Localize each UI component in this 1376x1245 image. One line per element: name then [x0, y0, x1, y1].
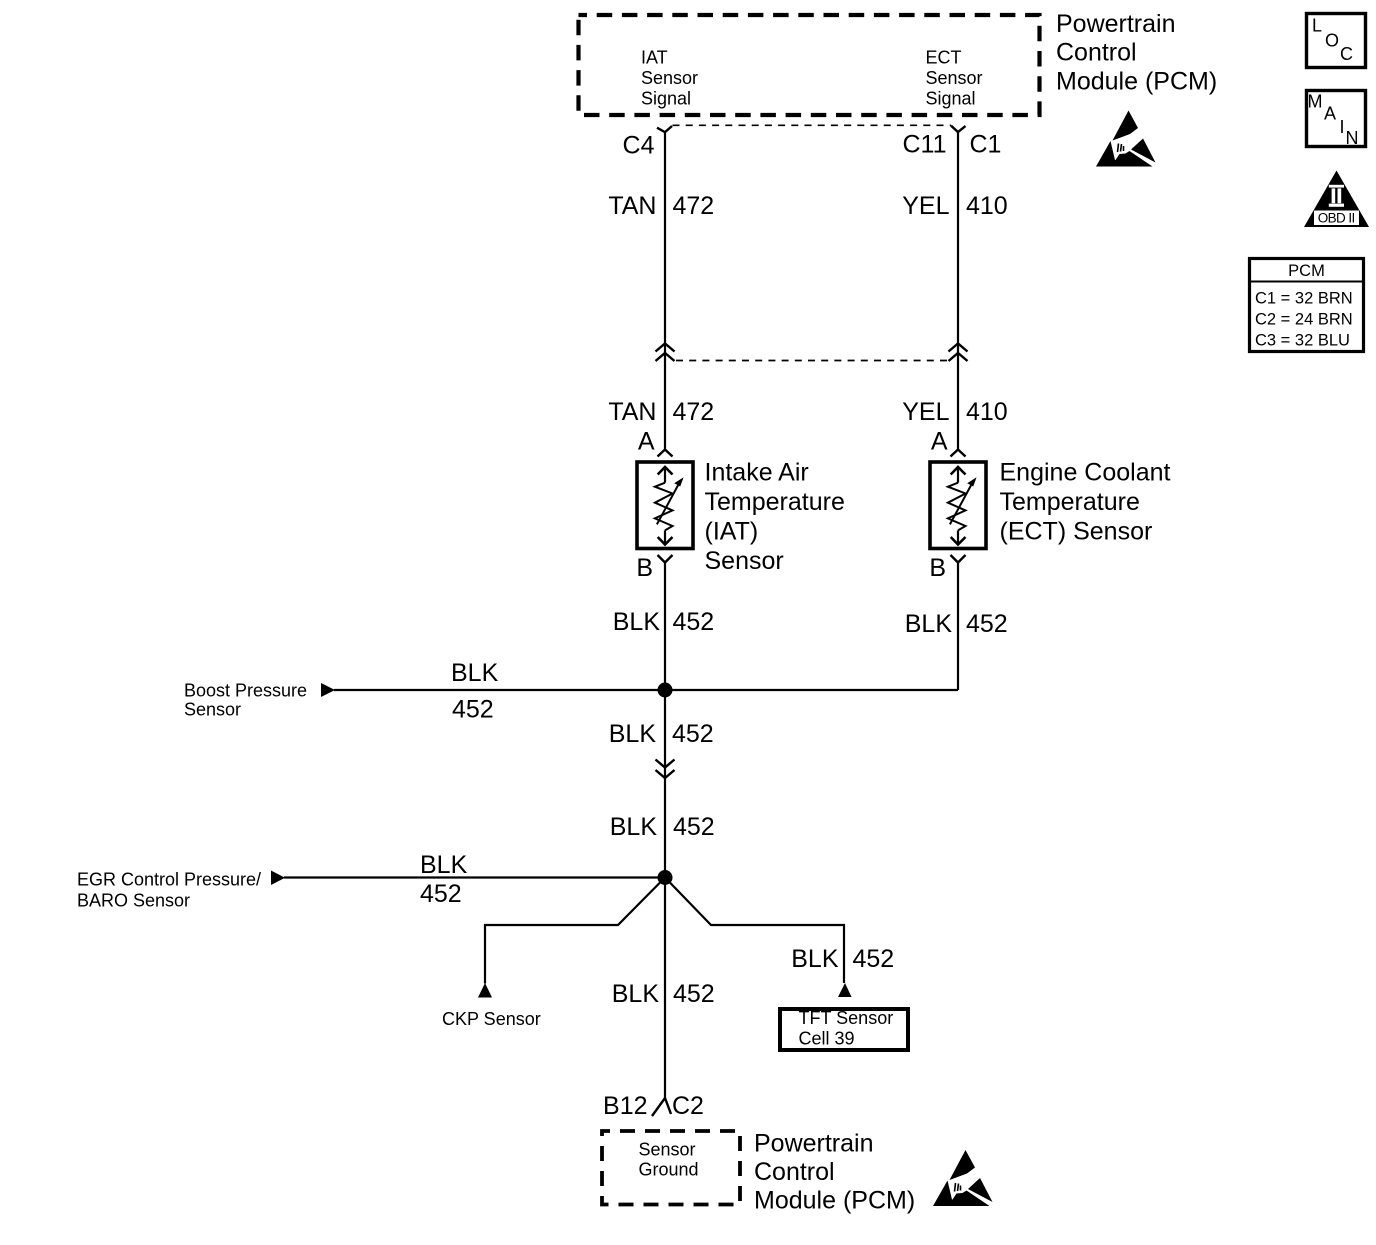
svg-text:Temperature: Temperature [1000, 488, 1140, 516]
label BLK 452 (boost branch) [451, 659, 499, 724]
label YEL 410 upper [902, 192, 1007, 220]
junction node S101 [658, 683, 673, 698]
svg-text:472: 472 [673, 398, 715, 426]
TFT branch arrow [838, 983, 852, 997]
svg-text:BLK: BLK [612, 980, 660, 1008]
svg-text:O: O [1325, 31, 1339, 51]
wire BLK 452 from ECT pin B [957, 563, 959, 691]
wire to TFT sensor (right branch) [665, 878, 844, 984]
svg-text:Cell 39: Cell 39 [799, 1029, 855, 1049]
label BLK 452 (ECT ground wire) [905, 610, 1008, 638]
pin B connector (IAT) [658, 555, 673, 563]
IAT sensor box U1 [637, 462, 693, 549]
wire BLK 452 horizontal (EGR branch) [284, 876, 665, 878]
svg-text:CKP Sensor: CKP Sensor [442, 1009, 541, 1029]
connector C11 / C1 at PCM [902, 126, 1001, 159]
svg-text:YEL: YEL [902, 398, 949, 426]
svg-text:452: 452 [672, 720, 714, 748]
svg-text:(IAT): (IAT) [705, 517, 759, 545]
svg-text:BLK: BLK [613, 608, 661, 636]
svg-text:BLK: BLK [420, 851, 468, 879]
wire BLK 452 from IAT pin B [664, 563, 666, 691]
svg-text:A: A [931, 428, 948, 456]
EGR Control Pressure / BARO Sensor label [77, 870, 261, 911]
label BLK 452 (IAT ground wire) [613, 608, 714, 636]
svg-text:452: 452 [966, 610, 1008, 638]
svg-text:452: 452 [673, 608, 715, 636]
svg-text:I: I [1340, 117, 1345, 137]
Boost Pressure Sensor label [184, 681, 307, 720]
MAIN box [1307, 91, 1366, 149]
svg-text:452: 452 [452, 696, 494, 724]
svg-text:A: A [1324, 104, 1336, 124]
pin A connector (ECT) [951, 450, 966, 457]
svg-text:ECT: ECT [926, 48, 962, 68]
svg-text:Intake Air: Intake Air [705, 459, 809, 487]
ECT sensor name label [1000, 459, 1171, 546]
svg-text:Sensor: Sensor [641, 68, 698, 88]
connector C2 label [672, 1092, 704, 1120]
wire BLK 452 (junction to break) [664, 690, 666, 878]
IAT Sensor Signal label [641, 48, 698, 109]
svg-text:N: N [1346, 128, 1359, 148]
svg-text:YEL: YEL [902, 192, 949, 220]
connector B12/C2 symbol [652, 1098, 671, 1116]
CKP Sensor label [442, 1009, 541, 1029]
IAT thermistor symbol [655, 467, 684, 545]
svg-text:452: 452 [673, 813, 715, 841]
svg-text:Control: Control [754, 1158, 835, 1186]
svg-text:Sensor: Sensor [926, 68, 983, 88]
label TAN 472 upper [608, 192, 714, 220]
svg-text:BLK: BLK [609, 720, 657, 748]
svg-text:A: A [638, 428, 655, 456]
svg-text:C2: C2 [672, 1092, 704, 1120]
ECT Sensor Signal label [926, 48, 983, 109]
Boost Pressure Sensor arrow [321, 683, 335, 697]
label BLK 452 (above lower junction) [610, 813, 715, 841]
dashed connector line (top) [673, 124, 952, 126]
TFT Sensor Cell 39 box [780, 1008, 908, 1050]
svg-text:C: C [1340, 44, 1353, 64]
svg-text:C4: C4 [623, 132, 655, 160]
pin B connector (ECT) [951, 555, 966, 563]
label YEL 410 lower [902, 398, 1007, 426]
pin B label (IAT) [636, 554, 653, 582]
label BLK 452 (EGR branch) [420, 851, 468, 908]
ESD warning symbol (top) [1096, 111, 1156, 167]
svg-text:C3 = 32 BLU: C3 = 32 BLU [1255, 332, 1350, 350]
label BLK 452 (TFT branch) [791, 945, 894, 973]
svg-text:Module (PCM): Module (PCM) [754, 1187, 915, 1215]
svg-text:452: 452 [420, 880, 462, 908]
svg-text:Powertrain: Powertrain [1056, 10, 1176, 38]
ECT thermistor symbol [948, 467, 977, 545]
PCM module dashed box (top) [579, 15, 1040, 115]
svg-text:L: L [1312, 16, 1322, 36]
harness break (right wire) [949, 344, 968, 362]
svg-text:Sensor: Sensor [184, 700, 241, 720]
svg-text:410: 410 [966, 398, 1008, 426]
svg-text:M: M [1308, 92, 1323, 112]
svg-text:Signal: Signal [926, 89, 976, 109]
LOC box [1307, 14, 1366, 68]
svg-text:PCM: PCM [1288, 262, 1325, 280]
svg-text:BLK: BLK [905, 610, 953, 638]
svg-text:EGR Control Pressure/: EGR Control Pressure/ [77, 870, 261, 890]
svg-text:B12: B12 [603, 1092, 647, 1120]
wire TAN 472 upper (IAT signal) [664, 132, 666, 449]
svg-text:Signal: Signal [641, 89, 691, 109]
svg-text:Boost Pressure: Boost Pressure [184, 681, 307, 701]
harness break (left wire) [656, 344, 675, 362]
svg-text:B: B [929, 554, 946, 582]
pin A label (IAT) [638, 428, 655, 456]
PCM connector legend table [1248, 259, 1365, 352]
svg-text:Control: Control [1056, 39, 1137, 67]
svg-text:Engine Coolant: Engine Coolant [1000, 459, 1171, 487]
svg-text:(ECT) Sensor: (ECT) Sensor [1000, 517, 1153, 545]
svg-text:C2 = 24 BRN: C2 = 24 BRN [1255, 311, 1353, 329]
wire YEL 410 upper (ECT signal) [957, 132, 959, 450]
svg-text:Module (PCM): Module (PCM) [1056, 68, 1217, 96]
connector C4 at PCM [623, 126, 672, 160]
svg-text:Sensor: Sensor [705, 547, 784, 575]
svg-text:BLK: BLK [451, 659, 499, 687]
svg-text:Sensor: Sensor [639, 1140, 696, 1160]
pin B12 label [603, 1092, 647, 1120]
svg-text:Ground: Ground [639, 1160, 699, 1180]
svg-text:472: 472 [673, 192, 715, 220]
ECT sensor box U2 [930, 462, 986, 549]
dashed break line (middle) [676, 360, 948, 362]
svg-text:OBD II: OBD II [1318, 211, 1356, 226]
pin B label (ECT) [929, 554, 946, 582]
IAT sensor name label [705, 459, 845, 575]
svg-text:452: 452 [853, 945, 895, 973]
svg-text:TAN: TAN [608, 192, 656, 220]
CKP branch arrow [478, 983, 492, 998]
svg-text:410: 410 [966, 192, 1008, 220]
wire BLK 452 horizontal (boost branch) [334, 689, 958, 691]
svg-text:BLK: BLK [791, 945, 839, 973]
svg-text:452: 452 [673, 980, 715, 1008]
harness break (center wire) [656, 760, 675, 779]
svg-text:C1: C1 [970, 131, 1002, 159]
svg-text:Powertrain: Powertrain [754, 1130, 874, 1158]
junction node S102 [658, 870, 673, 885]
EGR arrow [271, 871, 285, 886]
Powertrain Control Module (PCM) title top [1056, 10, 1217, 96]
label BLK 452 (below junction) [609, 720, 714, 748]
svg-text:B: B [636, 554, 653, 582]
svg-text:BLK: BLK [610, 813, 658, 841]
svg-text:BARO Sensor: BARO Sensor [77, 891, 190, 911]
Sensor Ground dashed box (PCM) [602, 1131, 740, 1205]
svg-text:C1 = 32 BRN: C1 = 32 BRN [1255, 290, 1353, 308]
OBD II symbol [1304, 171, 1369, 228]
label TAN 472 lower [608, 398, 714, 426]
svg-text:C11: C11 [902, 131, 946, 159]
ESD warning symbol (bottom) [933, 1150, 993, 1206]
svg-text:IAT: IAT [641, 48, 668, 68]
label BLK 452 (center bottom) [612, 980, 715, 1008]
wire to CKP sensor (left branch) [485, 878, 665, 984]
pin A connector (IAT) [658, 450, 673, 457]
svg-text:Temperature: Temperature [705, 488, 845, 516]
svg-text:TFT Sensor: TFT Sensor [799, 1008, 894, 1028]
svg-text:TAN: TAN [608, 398, 656, 426]
wire BLK 452 (center to PCM ground) [664, 878, 666, 1099]
Sensor Ground label [639, 1140, 699, 1180]
Powertrain Control Module (PCM) title bottom [754, 1130, 915, 1215]
pin A label (ECT) [931, 428, 948, 456]
